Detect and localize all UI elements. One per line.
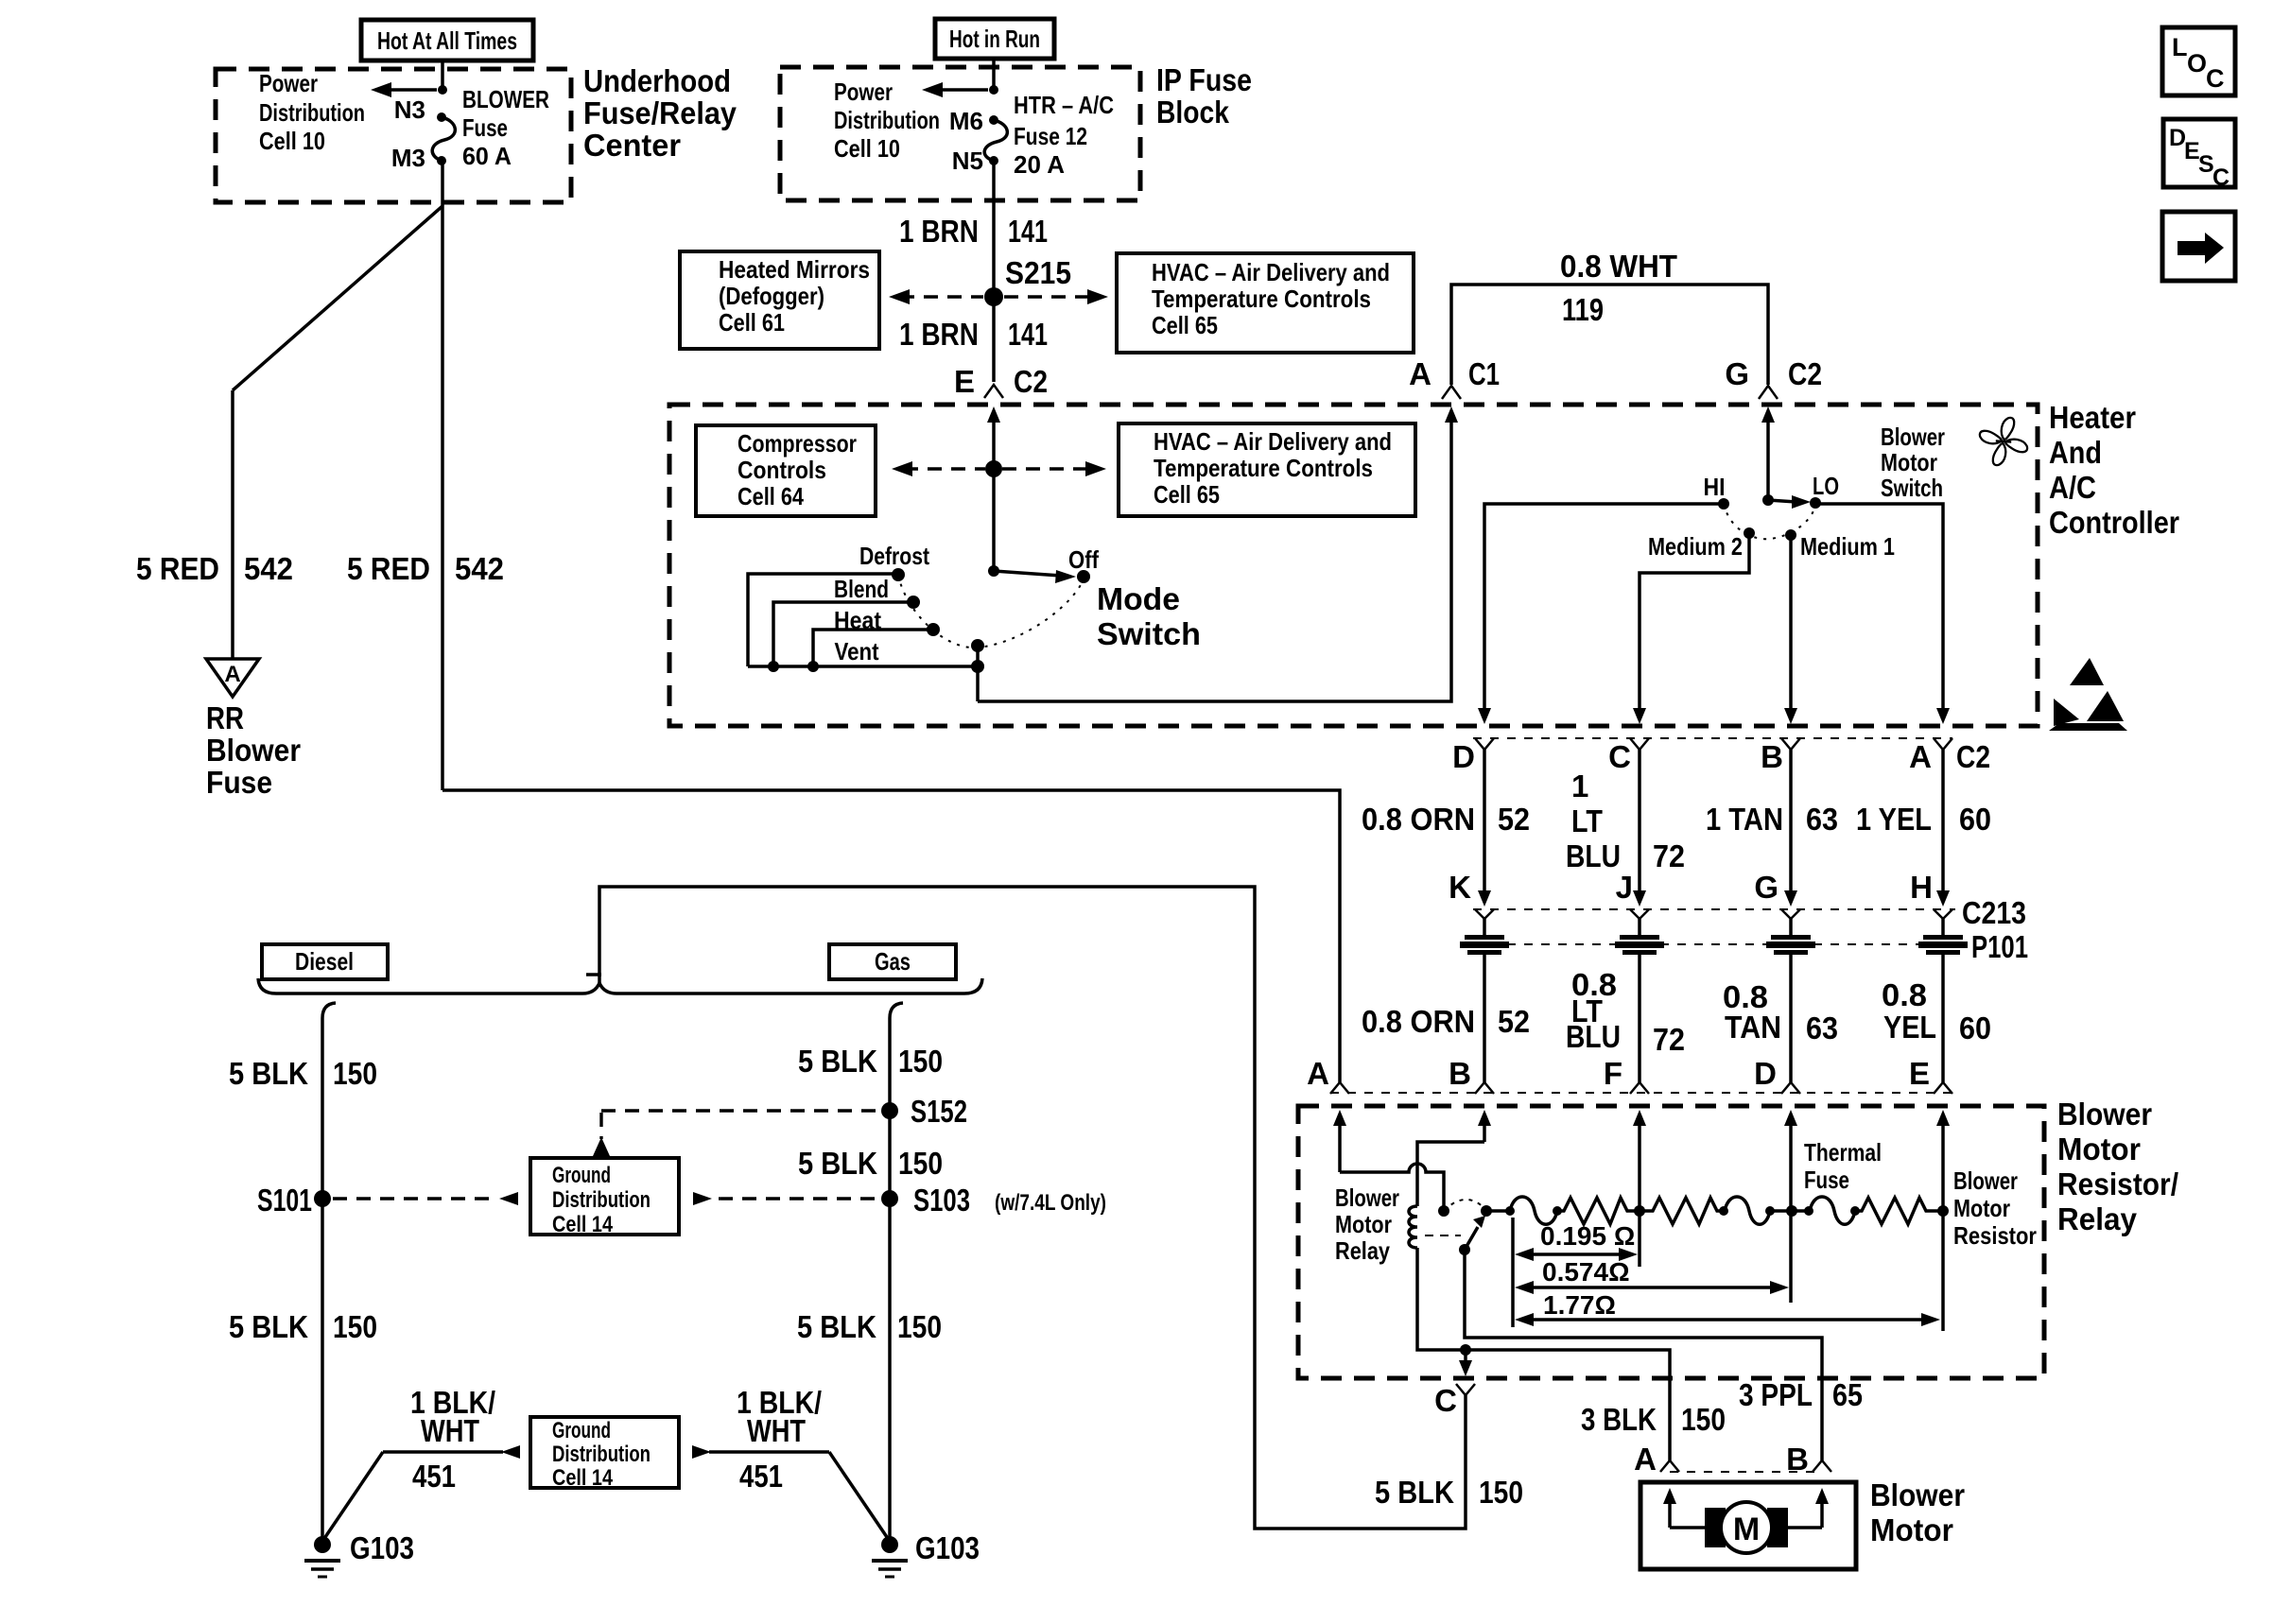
svg-text:G103: G103	[350, 1530, 414, 1565]
label 0.8 LT BLU 72 lower	[1566, 967, 1685, 1057]
wire 5 BLK 150 from pin C to ground run	[599, 887, 1466, 1529]
node pin D tap	[1770, 1209, 1809, 1213]
wire 1 TAN 63 upper	[1706, 750, 1838, 907]
resistor segment 3 zigzag	[1855, 1198, 1943, 1224]
svg-text:K: K	[1449, 870, 1471, 905]
wire 5 RED horizontal run to blower resistor pin A	[442, 790, 1340, 1082]
svg-text:Cell 14: Cell 14	[552, 1465, 614, 1491]
label 5 BLK 150 gas mid	[798, 1146, 943, 1181]
svg-text:C213: C213	[1962, 895, 2026, 930]
dashed arrow to Heated Mirrors	[889, 289, 983, 304]
node LO contact	[1810, 497, 1821, 509]
svg-text:542: 542	[244, 551, 293, 586]
ground G103 (right)	[872, 1530, 980, 1577]
svg-text:G103: G103	[915, 1530, 980, 1565]
svg-text:L: L	[2172, 33, 2188, 61]
svg-text:Blower: Blower	[1870, 1477, 1965, 1512]
label 5 BLK 150 diesel upper	[229, 1056, 377, 1091]
label HTR - A/C Fuse 12 20 A	[1014, 91, 1114, 179]
svg-text:Relay: Relay	[1335, 1236, 1390, 1265]
wire Defrost	[748, 574, 898, 666]
gas wire top hook	[890, 1003, 903, 1018]
wire 1 BLK/WHT right with arrow	[692, 1445, 889, 1540]
svg-text:Power: Power	[834, 78, 893, 106]
svg-text:Cell 65: Cell 65	[1152, 311, 1218, 339]
svg-text:N3: N3	[394, 95, 425, 124]
label box "Hot At All Times"	[361, 20, 533, 60]
connector E chevron (resistor box)	[1934, 1082, 1952, 1094]
connector G C2 chevron	[1759, 386, 1778, 399]
node mode output bus	[971, 660, 984, 673]
grommet splice on LT BLU wire	[1615, 919, 1664, 1082]
svg-text:Fuse 12: Fuse 12	[1014, 122, 1087, 150]
connector E C2 chevron	[984, 385, 1003, 398]
svg-text:N5: N5	[952, 147, 983, 175]
svg-text:C: C	[2212, 164, 2230, 191]
svg-text:52: 52	[1498, 1004, 1530, 1039]
ground G103 (left)	[304, 1530, 414, 1577]
svg-text:3 BLK: 3 BLK	[1581, 1402, 1657, 1437]
svg-text:0.195 Ω: 0.195 Ω	[1540, 1221, 1635, 1251]
svg-text:451: 451	[412, 1459, 456, 1494]
connector C chevron	[1630, 738, 1649, 750]
svg-text:Switch: Switch	[1881, 474, 1943, 502]
svg-text:C: C	[1434, 1383, 1457, 1418]
node mode switch common	[988, 565, 999, 577]
connector B chevron (blower motor)	[1813, 1460, 1831, 1472]
label Heater And A/C Controller	[2049, 400, 2179, 540]
svg-text:Distribution: Distribution	[552, 1442, 651, 1467]
connector D chevron	[1475, 738, 1494, 750]
svg-text:141: 141	[1008, 317, 1048, 352]
node relay NO contact	[1481, 1205, 1492, 1217]
Heater And A/C Controller dashed box	[669, 405, 2038, 726]
connector A C1 chevron	[1442, 386, 1461, 399]
svg-text:C2: C2	[1014, 364, 1048, 399]
label 3 PPL 65	[1739, 1377, 1863, 1412]
connector A chevron (resistor box)	[1330, 1082, 1349, 1094]
arrow down to pin C	[1459, 1350, 1472, 1376]
svg-text:C: C	[1608, 739, 1631, 774]
wire 0.8 WHT 119	[1451, 285, 1768, 385]
grommet line P101	[1473, 943, 1957, 945]
wire LO to pin A	[1815, 504, 1943, 709]
svg-text:0.8: 0.8	[1882, 977, 1927, 1012]
svg-text:S215: S215	[1005, 255, 1071, 290]
pin B arrow inside blower motor	[1815, 1488, 1829, 1528]
svg-text:WHT: WHT	[747, 1413, 806, 1448]
wire 5 RED 542 left branch	[231, 390, 234, 659]
svg-text:RR: RR	[206, 700, 244, 735]
svg-text:52: 52	[1498, 802, 1530, 837]
dashed travel arc of mode switch	[898, 575, 1084, 648]
label Blower Motor Resistor	[1953, 1166, 2037, 1250]
svg-text:LT: LT	[1571, 803, 1603, 838]
label 5 BLK 150 gas lower	[797, 1309, 942, 1344]
svg-text:M3: M3	[391, 144, 425, 172]
connector A chevron (blower motor)	[1660, 1460, 1679, 1472]
grommet splice on ORN wire	[1460, 919, 1509, 1082]
icon LOC	[2162, 27, 2235, 95]
label 1 BRN 141 (lower)	[899, 317, 1048, 352]
svg-text:Ground: Ground	[552, 1418, 611, 1443]
svg-text:Defrost: Defrost	[859, 542, 929, 570]
svg-text:And: And	[2049, 435, 2102, 470]
wire ground bus to pin 3 BLK	[1466, 1350, 1670, 1460]
fuse symbol A (RR Blower Fuse triangle)	[206, 659, 259, 697]
svg-text:Thermal: Thermal	[1804, 1138, 1882, 1166]
box Gas	[829, 944, 956, 979]
wire 5 BLK 150 gas upper	[888, 1018, 892, 1545]
svg-text:J: J	[1616, 870, 1633, 905]
wire pin B to relay coil	[1417, 1142, 1484, 1206]
svg-text:Compressor: Compressor	[737, 429, 857, 458]
svg-text:150: 150	[333, 1056, 377, 1091]
label Mode Switch	[1097, 581, 1201, 651]
box Diesel	[262, 944, 388, 979]
svg-text:72: 72	[1653, 838, 1685, 873]
svg-text:C2: C2	[1956, 739, 1990, 774]
label Underhood Fuse/Relay Center	[583, 63, 737, 163]
svg-text:Motor: Motor	[1870, 1512, 1953, 1547]
svg-text:Fuse: Fuse	[206, 765, 272, 800]
svg-text:O: O	[2187, 49, 2207, 78]
svg-text:60 A: 60 A	[462, 142, 512, 170]
svg-text:3 PPL: 3 PPL	[1739, 1377, 1813, 1412]
arrow down pin C	[1633, 708, 1646, 724]
svg-text:Blower: Blower	[2057, 1097, 2152, 1132]
svg-text:Medium 1: Medium 1	[1800, 532, 1895, 561]
node Medium 1 contact	[1785, 529, 1796, 541]
brace feed tick	[586, 973, 601, 976]
svg-text:141: 141	[1008, 214, 1048, 249]
connector K chevron	[1475, 909, 1494, 919]
svg-text:1 BRN: 1 BRN	[899, 214, 979, 249]
svg-text:Heated Mirrors: Heated Mirrors	[719, 255, 870, 284]
wire Blend	[773, 602, 913, 666]
connector line C2	[1473, 737, 1952, 739]
svg-text:150: 150	[1681, 1402, 1726, 1437]
svg-text:WHT: WHT	[421, 1413, 479, 1448]
svg-text:60: 60	[1959, 1011, 1991, 1045]
svg-text:1: 1	[1571, 769, 1588, 803]
svg-text:A: A	[1409, 356, 1431, 391]
node relay stationary contact (coil side)	[1438, 1205, 1449, 1217]
dashed arrow to HVAC cell 65 lower	[1002, 461, 1106, 476]
node Off contact	[1077, 570, 1090, 583]
label Blower Motor Switch	[1881, 423, 1945, 502]
svg-text:72: 72	[1653, 1022, 1685, 1057]
svg-text:D: D	[1452, 739, 1475, 774]
fan icon	[1972, 410, 2035, 473]
svg-text:E: E	[1909, 1056, 1930, 1091]
svg-text:Gas: Gas	[875, 947, 911, 976]
wire 1 YEL 60 upper	[1856, 750, 1991, 907]
label 0.8 TAN 63 lower	[1723, 979, 1838, 1045]
svg-text:5 BLK: 5 BLK	[798, 1146, 877, 1181]
svg-text:Cell 64: Cell 64	[737, 482, 804, 510]
label Thermal Fuse	[1804, 1138, 1882, 1194]
svg-text:Power: Power	[259, 69, 318, 97]
node heat-bus	[807, 661, 819, 672]
arrow to Power Distribution Cell 10	[371, 82, 437, 97]
svg-text:(Defogger): (Defogger)	[719, 282, 824, 310]
svg-text:Medium 2: Medium 2	[1648, 532, 1743, 561]
dashed link ground distribution to S103	[693, 1192, 877, 1205]
connector line blower motor	[1670, 1471, 1822, 1473]
svg-text:Vent: Vent	[835, 637, 879, 665]
svg-text:Hot in Run: Hot in Run	[949, 25, 1040, 53]
arrow down pin A	[1936, 708, 1950, 724]
wire Vent bus	[748, 665, 978, 668]
svg-text:65: 65	[1832, 1377, 1863, 1412]
svg-text:TAN: TAN	[1725, 1010, 1781, 1045]
dashed link S101 to ground distribution	[333, 1192, 518, 1205]
svg-text:Temperature Controls: Temperature Controls	[1152, 285, 1371, 313]
dashed travel arc blower switch	[1724, 504, 1815, 539]
label 3 BLK 150	[1581, 1402, 1726, 1437]
svg-text:1 BRN: 1 BRN	[899, 317, 979, 352]
arrow down pin D	[1478, 708, 1491, 724]
svg-text:63: 63	[1806, 802, 1838, 837]
wire from Hot in Run	[992, 59, 996, 90]
node pin F tap	[1634, 1205, 1645, 1217]
wire Medium 2 to pin C	[1640, 533, 1749, 709]
box Compressor Controls Cell 64	[696, 425, 876, 516]
label Blower Motor	[1870, 1477, 1965, 1547]
switch arm to LO	[1768, 495, 1811, 509]
wire pin A to relay coil contact (with hop)	[1340, 1164, 1444, 1208]
svg-text:Temperature Controls: Temperature Controls	[1154, 454, 1373, 482]
label Power Distribution Cell 10 (IP)	[834, 78, 940, 163]
pin A arrow into box	[1333, 1110, 1346, 1172]
svg-text:150: 150	[897, 1309, 942, 1344]
IP Fuse Block dashed box	[780, 67, 1140, 200]
connector F chevron (resistor box)	[1630, 1082, 1649, 1094]
svg-text:B: B	[1761, 739, 1783, 774]
wire Heat	[813, 630, 933, 666]
connector H chevron	[1934, 909, 1952, 919]
svg-text:150: 150	[898, 1044, 943, 1079]
pin A / connector C1 label	[1409, 356, 1500, 391]
svg-text:HVAC – Air Delivery and: HVAC – Air Delivery and	[1154, 427, 1392, 456]
wire 0.8 ORN 52 upper	[1362, 750, 1530, 907]
wire E C2 into controller with up arrow	[987, 406, 1000, 571]
wire fuse to box edge	[441, 161, 444, 202]
resistor segment 1 zigzag	[1557, 1198, 1640, 1224]
connector J chevron	[1630, 909, 1649, 919]
pin D arrow into box	[1784, 1110, 1797, 1211]
box Heated Mirrors (Defogger) Cell 61	[680, 251, 879, 349]
svg-text:Fuse: Fuse	[462, 113, 508, 142]
svg-text:Relay: Relay	[2057, 1201, 2138, 1236]
svg-text:M: M	[1733, 1512, 1760, 1547]
icon DESC	[2163, 119, 2235, 191]
svg-text:C: C	[2206, 64, 2225, 93]
splice S101	[314, 1190, 331, 1207]
fuse BLOWER Fuse 60 A	[432, 117, 455, 161]
svg-text:Distribution: Distribution	[552, 1187, 651, 1213]
pin A arrow inside blower motor	[1663, 1488, 1676, 1528]
svg-text:A: A	[1634, 1442, 1657, 1477]
arrow up at A C1 inside controller	[1445, 406, 1458, 423]
measurement tick D	[1789, 1211, 1793, 1303]
svg-text:Diesel: Diesel	[295, 947, 354, 976]
resistor segment 2 zigzag	[1640, 1198, 1724, 1224]
connector B chevron	[1781, 738, 1800, 750]
box Ground Distribution Cell 14 (upper)	[530, 1158, 679, 1237]
svg-text:451: 451	[739, 1459, 783, 1494]
svg-text:F: F	[1604, 1056, 1622, 1091]
svg-text:Resistor: Resistor	[1953, 1221, 2037, 1250]
svg-text:BLOWER: BLOWER	[462, 85, 549, 113]
splice S152	[881, 1102, 898, 1119]
wire HI to pin D	[1484, 504, 1724, 709]
svg-text:BLU: BLU	[1566, 838, 1621, 873]
icon arrow	[2162, 212, 2235, 281]
svg-text:Center: Center	[583, 128, 681, 163]
node Defrost contact	[892, 568, 905, 581]
measurement 1.77 ohm	[1515, 1290, 1940, 1326]
svg-text:Distribution: Distribution	[834, 106, 940, 134]
Blower Motor Resistor/Relay dashed box	[1298, 1106, 2044, 1378]
svg-text:1 TAN: 1 TAN	[1706, 802, 1783, 837]
svg-text:M6: M6	[949, 107, 983, 135]
label 0.8 YEL 60 lower	[1882, 977, 1991, 1045]
connector C chevron	[1456, 1384, 1475, 1395]
svg-text:S103: S103	[913, 1183, 970, 1218]
node junction IP power feed	[989, 85, 998, 95]
svg-text:Controls: Controls	[737, 456, 826, 484]
switch arm to Off	[994, 570, 1076, 583]
svg-text:63: 63	[1806, 1011, 1838, 1045]
svg-text:A: A	[1307, 1056, 1329, 1091]
svg-text:0.8 ORN: 0.8 ORN	[1362, 1004, 1475, 1039]
pin B arrow into box	[1478, 1110, 1491, 1142]
svg-text:P101: P101	[1971, 929, 2028, 964]
svg-text:B: B	[1449, 1056, 1471, 1091]
node pin E end	[1937, 1205, 1949, 1217]
box Ground Distribution Cell 14 (lower)	[530, 1417, 679, 1491]
wire dot above BLOWER fuse	[437, 112, 446, 122]
wire coil to ground bus	[1417, 1248, 1466, 1350]
wire 5 BLK 150 diesel lower	[321, 1199, 324, 1545]
connector D chevron (resistor box)	[1781, 1082, 1800, 1094]
pin E arrow into box	[1936, 1110, 1950, 1211]
connector A chevron	[1934, 738, 1952, 750]
arrow to Power Distribution Cell 10 (IP)	[922, 82, 988, 97]
svg-text:Motor: Motor	[1335, 1210, 1392, 1238]
label 5 BLK 150 diesel lower	[229, 1309, 377, 1344]
label 5 RED 542 (left)	[136, 551, 293, 586]
node relay armature pivot	[1459, 1244, 1470, 1255]
wire to motor brushes	[1670, 1526, 1708, 1529]
label 0.8 ORN 52 lower	[1362, 1004, 1530, 1039]
svg-text:0.8 ORN: 0.8 ORN	[1362, 802, 1475, 837]
grommet splice on TAN wire	[1766, 919, 1815, 1082]
svg-text:5 BLK: 5 BLK	[1375, 1475, 1454, 1510]
wire 5 RED 542 right branch (down to horizontal run)	[441, 202, 444, 790]
svg-text:IP Fuse: IP Fuse	[1156, 62, 1252, 97]
svg-text:Blend: Blend	[834, 575, 889, 603]
measurement tick left	[1511, 1218, 1515, 1327]
svg-text:0.574Ω: 0.574Ω	[1542, 1257, 1630, 1287]
relay coil L	[1409, 1206, 1417, 1248]
label 5 RED 542 (right)	[347, 551, 504, 586]
thermal fuse wave 2	[1725, 1197, 1770, 1224]
svg-text:Fuse/Relay: Fuse/Relay	[583, 95, 737, 130]
node splice to compressor/HVAC row	[985, 460, 1002, 477]
label Blower Motor Relay	[1335, 1183, 1399, 1265]
wire 5 BLK 150 diesel upper	[321, 1018, 324, 1199]
label Power Distribution Cell 10	[259, 69, 365, 155]
svg-text:A: A	[1909, 739, 1932, 774]
measurement 0.574 ohm	[1515, 1257, 1789, 1294]
svg-text:5 BLK: 5 BLK	[797, 1309, 876, 1344]
connector line above resistor box	[1330, 1092, 1952, 1094]
grommet splice on YEL wire	[1918, 919, 1968, 1082]
Underhood Fuse/Relay Center dashed box	[216, 69, 571, 202]
svg-text:S152: S152	[911, 1094, 967, 1129]
svg-text:Cell 65: Cell 65	[1154, 480, 1220, 509]
svg-text:Mode: Mode	[1097, 581, 1180, 616]
svg-text:YEL: YEL	[1883, 1010, 1936, 1045]
svg-text:Blower: Blower	[1335, 1183, 1399, 1212]
node switch common	[1762, 494, 1774, 506]
wire mode output to A C1	[976, 646, 980, 701]
box HVAC Air Delivery and Temperature Controls Cell 65 (lower)	[1119, 423, 1415, 516]
svg-text:Ground: Ground	[552, 1163, 611, 1188]
svg-text:D: D	[1754, 1056, 1777, 1091]
label 1 BRN 141 (upper)	[899, 214, 1048, 249]
svg-text:Hot At All Times: Hot At All Times	[377, 26, 517, 55]
svg-text:Fuse: Fuse	[1804, 1166, 1849, 1194]
label 1 BLK/WHT 451 (right)	[737, 1385, 822, 1494]
svg-text:H: H	[1910, 870, 1933, 905]
label RR Blower Fuse	[206, 700, 301, 800]
svg-text:Off: Off	[1068, 545, 1099, 574]
svg-text:(w/7.4L Only): (w/7.4L Only)	[995, 1190, 1106, 1216]
wire Medium 1 to pin B	[1789, 535, 1793, 709]
svg-text:HVAC – Air Delivery and: HVAC – Air Delivery and	[1152, 258, 1390, 286]
relay travel dashed arc	[1444, 1200, 1485, 1211]
node HI contact	[1718, 498, 1729, 510]
node Medium 2 contact	[1744, 527, 1755, 539]
svg-text:Distribution: Distribution	[259, 98, 365, 127]
svg-text:Switch: Switch	[1097, 616, 1201, 651]
svg-text:Motor: Motor	[1881, 448, 1937, 476]
box HVAC Air Delivery and Temperature Controls Cell 65 (upper)	[1117, 253, 1414, 353]
dashed arrow to Compressor Controls	[892, 461, 985, 476]
svg-text:542: 542	[455, 551, 504, 586]
svg-text:5 BLK: 5 BLK	[798, 1044, 877, 1079]
svg-text:150: 150	[898, 1146, 943, 1181]
svg-text:0.8 WHT: 0.8 WHT	[1560, 249, 1677, 284]
pin E / connector C2 label	[954, 364, 1048, 399]
svg-text:5 RED: 5 RED	[136, 551, 219, 586]
wire from Hot At All Times into box	[441, 60, 444, 90]
node mode output on arc	[971, 639, 984, 652]
label 1 BLK/WHT 451 (left)	[410, 1385, 495, 1494]
svg-text:E: E	[954, 364, 975, 399]
svg-text:60: 60	[1959, 802, 1991, 837]
svg-text:20 A: 20 A	[1014, 150, 1065, 179]
svg-text:Resistor/: Resistor/	[2057, 1166, 2178, 1201]
svg-text:Motor: Motor	[1953, 1194, 2010, 1222]
node resistor chain start	[1486, 1209, 1510, 1213]
node Blend contact	[907, 596, 920, 609]
diesel wire top hook	[322, 1003, 336, 1018]
